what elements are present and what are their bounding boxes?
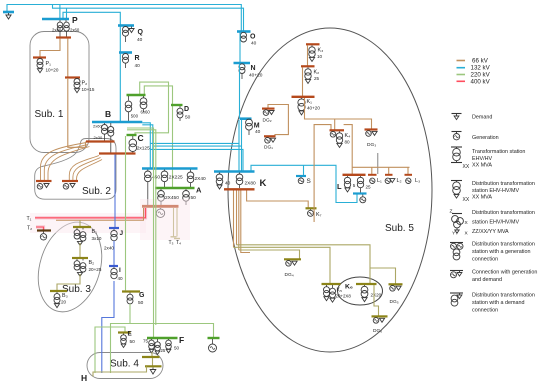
generation at T bus bbox=[160, 208, 162, 209]
bus D bbox=[171, 104, 183, 106]
wire K1 to K4 DG3 web bbox=[305, 98, 372, 129]
transformer 50 at A bbox=[185, 189, 187, 191]
wire 220kV EF lower bbox=[95, 327, 125, 373]
transformer at G 50 bbox=[129, 293, 131, 295]
wire L3 drop bbox=[407, 167, 409, 174]
svg-text:Connection with generation: Connection with generation bbox=[472, 270, 537, 276]
svg-text:40: 40 bbox=[137, 37, 143, 43]
generation and demand DG2 bbox=[263, 110, 269, 116]
svg-text:S: S bbox=[307, 178, 311, 185]
generation at K4 bbox=[330, 132, 336, 138]
svg-text:DG₅: DG₅ bbox=[390, 299, 399, 305]
svg-text:B₃: B₃ bbox=[62, 293, 68, 299]
bus F bbox=[147, 337, 178, 339]
wire olive H1 bbox=[237, 245, 371, 283]
wire 66kV Sub2 fan 6 bbox=[77, 160, 103, 181]
transformer K5 pair 1 bbox=[326, 285, 328, 287]
wire 132kV top line A bbox=[7, 5, 241, 32]
svg-text:D: D bbox=[184, 106, 189, 113]
transformer at M bbox=[246, 119, 253, 130]
transformer at N bbox=[239, 64, 245, 74]
svg-text:500: 500 bbox=[131, 114, 139, 119]
svg-text:T₂: T₂ bbox=[27, 226, 32, 232]
wire K feeder 4 bbox=[241, 191, 250, 253]
wire olive DG5 branch bbox=[370, 268, 396, 284]
transformer F 75 left pair bbox=[151, 339, 153, 340]
bus S bbox=[296, 175, 306, 177]
svg-text:50: 50 bbox=[138, 300, 144, 306]
svg-text:66 kV: 66 kV bbox=[472, 58, 489, 65]
svg-text:40+20: 40+20 bbox=[249, 73, 263, 79]
bus T 400kV bbox=[142, 205, 179, 208]
wire 220kV C area to F bbox=[127, 128, 154, 338]
svg-text:K: K bbox=[260, 178, 267, 189]
svg-text:T₃: T₃ bbox=[169, 240, 174, 246]
transformer 2X80 below K bbox=[239, 173, 241, 175]
svg-text:DG₃: DG₃ bbox=[367, 142, 376, 148]
bus E bbox=[118, 331, 131, 333]
svg-text:Sub. 4: Sub. 4 bbox=[110, 359, 139, 370]
wire 66kV Sub2 fan 1 bbox=[41, 143, 87, 181]
svg-text:20: 20 bbox=[61, 300, 67, 305]
svg-text:P₂: P₂ bbox=[82, 81, 88, 87]
wire olive H3 bbox=[239, 250, 300, 259]
svg-text:A: A bbox=[196, 186, 202, 195]
substation Sub. 2 outline bbox=[35, 139, 116, 200]
bus 66kV Sub2 lower bbox=[99, 152, 136, 154]
svg-text:10: 10 bbox=[317, 54, 323, 59]
svg-text:K₄: K₄ bbox=[345, 133, 351, 139]
svg-text:40: 40 bbox=[251, 41, 257, 47]
bus K2 bbox=[301, 65, 315, 67]
wire K feeder 3 bbox=[238, 191, 240, 251]
svg-text:O: O bbox=[250, 34, 256, 41]
transformer at R bbox=[123, 54, 129, 64]
bus B3 bbox=[50, 290, 67, 292]
wire 132kV P riser 1 bbox=[59, 5, 61, 20]
svg-text:E: E bbox=[128, 331, 133, 338]
svg-text:J: J bbox=[120, 230, 124, 237]
transformer 2x60 at P bbox=[65, 20, 67, 22]
bus Sub4 lower bbox=[145, 365, 162, 367]
bus B2 bbox=[72, 257, 88, 259]
legend 220 kV line bbox=[457, 74, 466, 76]
bus DG5 bbox=[389, 283, 403, 285]
bus DG4 bbox=[284, 258, 301, 260]
svg-text:P₁: P₁ bbox=[46, 61, 52, 67]
substation Sub. 4 outline bbox=[87, 353, 163, 379]
svg-text:40+20: 40+20 bbox=[307, 106, 320, 111]
transformer 2X225 bbox=[164, 170, 166, 172]
transformers B1 3x10 bbox=[76, 228, 78, 230]
svg-text:P: P bbox=[72, 15, 78, 25]
svg-text:station with a generation: station with a generation bbox=[472, 249, 530, 255]
bus generation right of F bbox=[208, 337, 220, 339]
legend 400 kV line bbox=[457, 80, 466, 82]
bus B bbox=[92, 121, 142, 124]
bus K5 bbox=[322, 283, 341, 285]
bus L3 bbox=[405, 174, 413, 176]
wire K4 L web bbox=[314, 125, 331, 222]
svg-text:20+2X8: 20+2X8 bbox=[336, 294, 352, 299]
legend transformation station symbol bbox=[451, 146, 462, 148]
bus top-left stub bbox=[3, 11, 14, 14]
wire K3 to K2 bbox=[307, 45, 309, 66]
wire 66kV P1 feeder bbox=[40, 39, 60, 58]
svg-text:B₁: B₁ bbox=[92, 229, 98, 235]
svg-text:L₂: L₂ bbox=[397, 178, 402, 184]
bus K4 bbox=[330, 129, 345, 131]
svg-text:50: 50 bbox=[130, 339, 136, 345]
substation Sub. 5 outline bbox=[228, 28, 432, 352]
svg-text:N: N bbox=[251, 65, 256, 72]
bus L secondary 132kV bbox=[353, 192, 367, 194]
svg-text:6x60: 6x60 bbox=[141, 110, 151, 115]
generation and demand DG4 bbox=[286, 261, 292, 267]
legend station with generation connection symbol bbox=[450, 242, 463, 244]
transformer at I 40 bbox=[113, 267, 115, 269]
bus P2 bbox=[65, 76, 80, 78]
bus B1 bbox=[73, 226, 91, 228]
svg-text:2X80: 2X80 bbox=[245, 181, 257, 187]
transformer at J 2x40 bbox=[113, 229, 115, 231]
svg-text:XX MVA: XX MVA bbox=[472, 195, 492, 201]
svg-text:ZZ/XX/YY MVA: ZZ/XX/YY MVA bbox=[472, 229, 509, 235]
bus Sub2 demand group 1 bbox=[36, 180, 52, 182]
svg-text:XX MVA: XX MVA bbox=[472, 163, 492, 169]
transformer 2X450 below A bbox=[160, 189, 162, 191]
transformer P2 10+15 bbox=[74, 79, 80, 89]
wire 132kV link to K 3 bbox=[150, 149, 243, 171]
bus P secondary 66kV bbox=[56, 36, 71, 38]
svg-text:C: C bbox=[138, 133, 144, 143]
wire 132kV O to N bbox=[239, 33, 241, 64]
svg-text:80: 80 bbox=[345, 140, 351, 145]
svg-text:Demand: Demand bbox=[472, 115, 492, 121]
wire P2 continuation into Sub.2 bbox=[68, 78, 86, 147]
svg-text:DG₆: DG₆ bbox=[373, 328, 382, 334]
transformer 450 bbox=[147, 170, 149, 172]
svg-text:L₃: L₃ bbox=[415, 178, 420, 184]
wire 132kV B to central bus 1 bbox=[142, 123, 150, 169]
substation Sub. 3 outline bbox=[28, 214, 112, 320]
svg-text:3x10: 3x10 bbox=[92, 236, 102, 241]
wire 66kV B1 riser bbox=[79, 220, 81, 227]
svg-text:XX: XX bbox=[463, 164, 470, 170]
svg-text:400 kV: 400 kV bbox=[471, 78, 491, 85]
demand at top-left stub bbox=[8, 13, 10, 15]
bus A bbox=[155, 187, 195, 189]
wire Sub4 link bbox=[152, 358, 154, 366]
transformer K6 2X20 bbox=[364, 285, 366, 287]
svg-text:G: G bbox=[139, 292, 145, 299]
bus N bbox=[234, 62, 251, 65]
svg-text:XX: XX bbox=[463, 197, 470, 203]
svg-text:H: H bbox=[81, 373, 87, 383]
generation below L bus bbox=[362, 195, 364, 197]
svg-text:2X40: 2X40 bbox=[195, 176, 207, 182]
svg-text:40: 40 bbox=[135, 63, 141, 69]
svg-text:and demand: and demand bbox=[472, 277, 502, 283]
transformer 2X40 bbox=[190, 170, 192, 173]
wire L2 drop bbox=[388, 167, 390, 174]
generation at T2 stub bbox=[43, 232, 45, 234]
generation and demand DG5 bbox=[390, 286, 396, 292]
svg-text:2x30: 2x30 bbox=[94, 135, 103, 140]
bus L bbox=[343, 174, 366, 176]
legend generation symbol bbox=[452, 131, 462, 133]
wire T3 stub bbox=[173, 208, 175, 237]
wire 132kV S stub bbox=[303, 165, 305, 175]
transformer at E 50 bbox=[123, 334, 125, 336]
svg-text:Q: Q bbox=[138, 29, 144, 36]
svg-text:M: M bbox=[254, 123, 260, 130]
wire 132kV Q-R feeder line C bbox=[63, 12, 120, 122]
transformer 2x125 at C bbox=[132, 136, 134, 140]
svg-text:YY: YY bbox=[452, 231, 459, 237]
legend demand symbol bbox=[452, 113, 462, 115]
bus central 132kV bbox=[142, 167, 198, 170]
bus K1 bbox=[292, 96, 315, 98]
svg-text:Sub. 2: Sub. 2 bbox=[82, 186, 111, 197]
transformer F 25 middle bbox=[157, 339, 159, 342]
pink tint region T bus bbox=[140, 199, 190, 240]
svg-text:DG₂: DG₂ bbox=[263, 118, 272, 124]
wire 220kV C to G bbox=[125, 136, 127, 291]
svg-text:50: 50 bbox=[191, 195, 197, 201]
svg-text:2X225: 2X225 bbox=[169, 175, 183, 181]
wire 220kV loop upper 2 bbox=[144, 86, 172, 188]
bus K 66kV secondary bbox=[224, 188, 255, 190]
bus R bbox=[119, 51, 132, 54]
svg-text:K₆: K₆ bbox=[345, 284, 353, 291]
demand at Q bbox=[131, 27, 133, 29]
wire 132kV link to K 2 bbox=[153, 146, 242, 171]
wire T4 stub bbox=[176, 208, 178, 237]
generation and demand at Sub2 group 1 bbox=[37, 184, 43, 190]
generation and demand DG1 bbox=[265, 138, 271, 144]
svg-text:DG₁: DG₁ bbox=[264, 145, 273, 151]
wire olive H2 bbox=[234, 247, 331, 283]
bus DG2 bbox=[262, 107, 275, 109]
transformer K5 pair 2 bbox=[332, 285, 334, 288]
wire L1 drop bbox=[371, 167, 373, 174]
svg-text:25: 25 bbox=[366, 185, 372, 190]
wire K feeder 2 bbox=[236, 191, 238, 245]
svg-text:Generation: Generation bbox=[472, 135, 499, 141]
wire 66kV Sub2 fan 4 bbox=[69, 156, 99, 181]
svg-text:station with a demand: station with a demand bbox=[472, 300, 524, 306]
legend station with demand connection symbol bbox=[450, 292, 463, 294]
svg-text:Sub. 5: Sub. 5 bbox=[385, 223, 414, 234]
bus T2 generation stub bbox=[37, 229, 51, 231]
wire 132kV K to S-L line bbox=[251, 165, 357, 202]
svg-text:K₂: K₂ bbox=[314, 70, 320, 76]
legend connection with generation and demand symbol bbox=[450, 270, 463, 272]
wire 132kV B to central bus 2 bbox=[142, 125, 153, 169]
transformer 2x30 below B bbox=[110, 123, 112, 126]
wire L laterals bbox=[352, 166, 409, 168]
wire K4 riser bbox=[334, 119, 336, 130]
generation L3 bbox=[406, 178, 411, 183]
wire 132kV I feeder south bbox=[102, 281, 114, 373]
wire 66kV parallel line below T1 bbox=[56, 208, 144, 220]
transformer K4 bbox=[339, 131, 341, 133]
transformer K3 10 bbox=[311, 45, 313, 47]
bus 220kV above B bbox=[127, 94, 146, 96]
wire 132kV link to K 1 bbox=[150, 143, 239, 171]
substation K6 outline bbox=[338, 277, 383, 305]
generation L1 bbox=[370, 178, 375, 183]
svg-text:Distribution transformation: Distribution transformation bbox=[472, 210, 535, 216]
bus G bbox=[122, 290, 140, 292]
transformer 40 below K bbox=[219, 173, 221, 175]
substation Sub. 1 outline bbox=[30, 32, 89, 153]
svg-text:connection: connection bbox=[472, 257, 498, 263]
svg-text:B: B bbox=[105, 109, 111, 119]
wire 400kV T2 halo bbox=[36, 227, 44, 230]
transformer at Q bbox=[123, 27, 129, 37]
generation K7 bbox=[310, 209, 312, 210]
svg-text:station EHV-HV/MV: station EHV-HV/MV bbox=[472, 188, 519, 194]
transformers B2 20+25 bbox=[76, 259, 78, 261]
demand at Sub4 bbox=[152, 368, 154, 370]
svg-text:2X20: 2X20 bbox=[371, 293, 382, 298]
transformer 500 above B bbox=[128, 96, 130, 101]
bus K 132kV bbox=[214, 170, 255, 173]
svg-text:50: 50 bbox=[185, 115, 191, 121]
wire olive F to Sub4 bbox=[151, 352, 153, 357]
bus P1 bbox=[33, 56, 46, 58]
wire 400kV T1 halo bbox=[35, 208, 146, 218]
bus C bbox=[127, 134, 137, 136]
bus Sub2 demand group 2 bbox=[62, 180, 78, 182]
bus Q bbox=[118, 24, 134, 27]
wire L riser upper bbox=[344, 125, 353, 175]
generation right of F bbox=[212, 339, 214, 344]
wire B2 to B3 bbox=[57, 274, 80, 291]
transformer 6x60 above B bbox=[143, 96, 145, 98]
wire K2 to K1 bbox=[302, 67, 304, 96]
transformer 2x40 at P bbox=[59, 20, 61, 22]
svg-text:2x40: 2x40 bbox=[52, 28, 62, 33]
svg-text:I: I bbox=[119, 267, 121, 274]
svg-text:DG₄: DG₄ bbox=[285, 272, 294, 278]
svg-text:R: R bbox=[135, 55, 140, 62]
transformer P1 10+20 bbox=[37, 59, 43, 69]
wire 66kV Sub2 fan 3 bbox=[48, 147, 90, 181]
svg-text:K₁: K₁ bbox=[307, 99, 313, 105]
generation at S bbox=[300, 177, 302, 178]
wire 66kV P2 feeder bbox=[67, 39, 69, 78]
svg-text:K₃: K₃ bbox=[318, 48, 324, 54]
svg-text:K₇: K₇ bbox=[316, 212, 322, 218]
transformer K1 40+20 bbox=[301, 98, 303, 99]
svg-text:F: F bbox=[179, 335, 184, 345]
svg-text:B₂: B₂ bbox=[89, 260, 95, 266]
transformer L 25 bbox=[360, 176, 362, 177]
transformer at D 50 bbox=[179, 106, 181, 108]
generation and demand DG3 bbox=[366, 131, 372, 137]
bus K3 bbox=[306, 43, 320, 45]
wire 132kV N to M bbox=[239, 64, 241, 119]
pink tint region T lines bbox=[30, 213, 146, 233]
transformer K2 25 bbox=[307, 67, 309, 69]
svg-text:T₄: T₄ bbox=[176, 240, 181, 246]
wire DG6 drop bbox=[374, 285, 379, 316]
legend distribution transformation station EHV-HV/MV symbol bbox=[451, 180, 462, 182]
wire 132kV bus to J bbox=[114, 155, 116, 229]
svg-text:10+15: 10+15 bbox=[82, 87, 95, 92]
svg-text:2x60: 2x60 bbox=[70, 28, 80, 33]
bus Sub4 upper bbox=[142, 356, 160, 358]
wire 220kV C area to EF web bbox=[127, 130, 156, 325]
leader line DG3 bbox=[377, 153, 379, 174]
wire olive Sub4 bottom link bbox=[93, 367, 147, 377]
bus P bbox=[42, 18, 69, 21]
svg-text:10+20: 10+20 bbox=[46, 68, 59, 73]
svg-text:40: 40 bbox=[118, 276, 124, 281]
wire 66kV Sub2 fan 5 bbox=[73, 158, 101, 181]
svg-text:20+25: 20+25 bbox=[89, 267, 102, 272]
legend 66 kV line bbox=[457, 60, 466, 62]
transformer F 50 right bbox=[168, 339, 170, 340]
bus DG1 bbox=[264, 135, 276, 137]
bus K7 bbox=[306, 207, 317, 209]
transformer at O bbox=[241, 32, 247, 42]
generation and demand at Sub2 group 2 bbox=[63, 184, 69, 190]
svg-text:Transformation station: Transformation station bbox=[472, 149, 525, 155]
wire 132kV M to K 1 bbox=[238, 120, 240, 144]
bus M bbox=[240, 117, 252, 120]
svg-text:EHV/HV: EHV/HV bbox=[472, 156, 492, 162]
wire 132kV P riser 2 bbox=[66, 8, 68, 19]
transformer 2x60 below B bbox=[104, 123, 106, 125]
generation and demand L2 bbox=[385, 178, 390, 183]
svg-text:2x40: 2x40 bbox=[104, 246, 114, 251]
wire 66kV Sub2 fan 2 bbox=[44, 145, 88, 181]
svg-text:5: 5 bbox=[353, 183, 356, 188]
wire K feeder 1 bbox=[233, 191, 235, 248]
wire 220kV loop upper 1 bbox=[135, 82, 169, 134]
svg-text:2x60: 2x60 bbox=[93, 124, 102, 129]
svg-text:T₁: T₁ bbox=[27, 216, 32, 222]
svg-text:Distribution transformation: Distribution transformation bbox=[472, 242, 535, 248]
svg-text:25: 25 bbox=[161, 348, 166, 353]
svg-text:25: 25 bbox=[314, 76, 320, 81]
bus DG3 bbox=[365, 128, 378, 130]
svg-text:L: L bbox=[337, 182, 342, 191]
legend 132 kV line bbox=[457, 67, 466, 69]
wire B1 to B2 bbox=[79, 243, 81, 258]
svg-text:2x125: 2x125 bbox=[137, 146, 150, 152]
wire 132kV top line B bbox=[53, 5, 244, 32]
svg-text:40: 40 bbox=[225, 181, 231, 187]
svg-text:50: 50 bbox=[174, 346, 180, 351]
bus 66kV Sub2 upper bbox=[86, 140, 115, 142]
bus O bbox=[237, 30, 251, 33]
wire 220kV EF upper bbox=[111, 324, 214, 374]
svg-text:station EHV/HV/MV: station EHV/HV/MV bbox=[472, 219, 519, 225]
wire 400kV T1 bbox=[35, 208, 146, 218]
svg-text:Distribution transformation: Distribution transformation bbox=[472, 293, 535, 299]
wire 132kV M to K 2 bbox=[241, 120, 243, 147]
bus J bbox=[109, 227, 119, 229]
wire 400kV T2 bbox=[36, 227, 44, 230]
svg-text:75: 75 bbox=[143, 339, 149, 344]
bus K6 bbox=[356, 283, 377, 285]
bus L1 bbox=[368, 174, 377, 176]
